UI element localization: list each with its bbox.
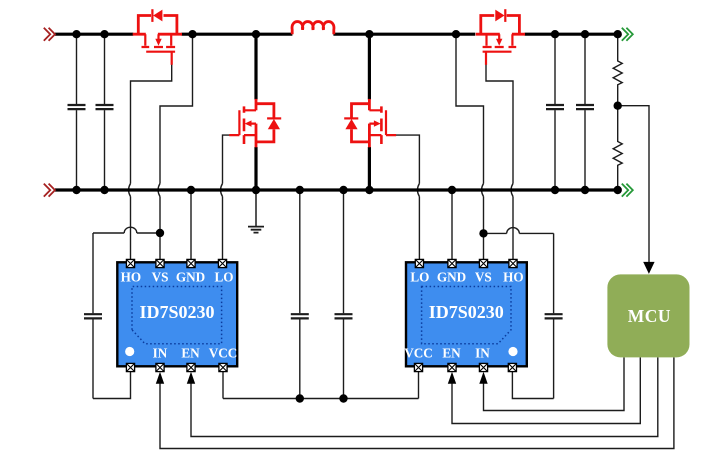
resistor R2 feedback lower bbox=[613, 106, 622, 190]
pin VCC U2 bbox=[414, 363, 422, 371]
wire bootstrap-left to VS node bbox=[137, 232, 160, 234]
wire bootstrap-right bottom route to VB pin bbox=[512, 372, 553, 399]
wire bootstrap-left bottom route to VB pin bbox=[93, 372, 131, 399]
svg-text:GND: GND bbox=[176, 270, 205, 285]
arrow into EN U1 bbox=[187, 372, 195, 384]
capacitor C1 input bbox=[68, 34, 86, 190]
wire LO-right to pin bbox=[418, 197, 420, 260]
arrow into IN U2 bbox=[479, 372, 487, 384]
wire bootstrap-right horizontal bbox=[484, 232, 507, 234]
wire VS-left to pin bbox=[159, 197, 161, 260]
port VIN+ chevron bbox=[44, 28, 55, 41]
pin EN U1 bbox=[187, 363, 195, 371]
op-amp U1 gate driver body bbox=[117, 262, 237, 366]
pin LO U2 bbox=[415, 259, 423, 267]
pin VS U1 bbox=[156, 259, 164, 267]
svg-text:ID7S0230: ID7S0230 bbox=[139, 302, 214, 322]
port VIN- chevron bbox=[44, 184, 55, 197]
capacitor C5 VCC decoupling bbox=[335, 190, 353, 399]
svg-text:LO: LO bbox=[214, 270, 233, 285]
svg-text:VS: VS bbox=[152, 270, 169, 285]
capacitor C7 output bbox=[576, 34, 594, 190]
pin HO U1 bbox=[126, 259, 134, 267]
wire LO-right rail hop bbox=[417, 184, 419, 197]
pin GND U2 bbox=[448, 259, 456, 267]
pin VB U1 bbox=[126, 363, 134, 371]
svg-text:VS: VS bbox=[475, 270, 492, 285]
junction dot VS-left bootstrap bbox=[156, 229, 164, 237]
junction dots bottom rail bbox=[72, 186, 622, 194]
transistor Q1 (top-left MOSFET with body diode) bbox=[133, 9, 182, 65]
svg-text:GND: GND bbox=[437, 270, 466, 285]
svg-text:VCC: VCC bbox=[209, 346, 238, 361]
svg-text:VCC: VCC bbox=[404, 346, 433, 361]
wire MCU out4 to IN-left bbox=[160, 357, 674, 448]
pin EN U2 bbox=[448, 363, 456, 371]
wire LO-left rail hop bbox=[221, 184, 223, 197]
junction dot feedback tap bbox=[614, 102, 622, 110]
svg-text:ID7S0230: ID7S0230 bbox=[429, 302, 504, 322]
wire Q3 source (thick) bbox=[368, 147, 371, 190]
pin GND U1 bbox=[187, 259, 195, 267]
port VOUT+ chevron bbox=[622, 28, 633, 41]
MCU block bbox=[607, 274, 689, 357]
wire bootstrap-left hop over HO wire bbox=[124, 227, 137, 233]
wire LO-right gate route bbox=[396, 135, 420, 183]
wire bootstrap-right hop over HO wire bbox=[507, 228, 520, 234]
wire HO-left gate route bbox=[131, 65, 172, 184]
capacitor C8 bootstrap-right bbox=[545, 233, 563, 398]
capacitor C3 bootstrap-left bbox=[84, 233, 102, 399]
wire Q2 drain (thick) bbox=[254, 34, 257, 99]
wire VCC-right pin drop bbox=[418, 372, 420, 399]
junction dot VCC bus C4 bbox=[296, 394, 304, 402]
wire VS-left rail hop bbox=[158, 184, 160, 197]
U2 inner dashed outline bbox=[422, 287, 511, 344]
wire VS-left from switch node bbox=[160, 34, 193, 183]
svg-text:IN: IN bbox=[475, 346, 490, 361]
wire HO-right gate route bbox=[486, 65, 513, 184]
wire feedback divider tap to MCU bbox=[618, 106, 649, 263]
svg-text:EN: EN bbox=[442, 346, 461, 361]
wire MCU out2 to EN-right bbox=[452, 357, 640, 423]
wire HO-left to pin bbox=[130, 197, 132, 260]
top rail Q1 to inductor bbox=[182, 33, 293, 36]
arrow into EN U2 bbox=[448, 372, 456, 384]
pin VCC U1 bbox=[219, 363, 227, 371]
pin IN U1 bbox=[156, 363, 164, 371]
junction dot VCC bus C5 bbox=[339, 394, 347, 402]
wire GND-left pin to ground rail bbox=[190, 190, 192, 260]
wire HO-left rail hop bbox=[129, 184, 131, 197]
ground bbox=[248, 190, 264, 233]
wire HO-right to pin bbox=[512, 197, 514, 260]
capacitor C6 output bbox=[546, 34, 564, 190]
port VOUT- chevron bbox=[622, 184, 633, 197]
wire LO-left gate route bbox=[223, 135, 230, 183]
U1 pin-1 marker bbox=[125, 347, 134, 356]
wire VS-right to pin bbox=[483, 197, 485, 260]
op-amp U2 gate driver body bbox=[406, 262, 527, 366]
arrow into IN U1 bbox=[156, 372, 164, 384]
wire Q2 source (thick) bbox=[254, 147, 257, 190]
wire bootstrap-right to cap bbox=[519, 232, 553, 234]
transistor Q4 (top-right MOSFET, mirrored) bbox=[476, 9, 525, 65]
transistor Q2 (left low-side MOSFET with body diode) bbox=[229, 99, 281, 147]
wire VCC bus bbox=[223, 398, 419, 400]
pin LO U1 bbox=[218, 259, 226, 267]
pin VB U2 bbox=[508, 363, 516, 371]
U2 pin-1 marker bbox=[508, 347, 517, 356]
transistor Q3 (right low-side MOSFET, mirrored) bbox=[344, 99, 396, 147]
pin VS U2 bbox=[479, 259, 487, 267]
svg-text:EN: EN bbox=[181, 346, 200, 361]
junction dots top rail bbox=[72, 30, 622, 38]
wire GND-right pin to ground rail bbox=[451, 190, 453, 260]
wire bootstrap-left horizontal bbox=[93, 232, 124, 234]
wire VCC-left pin to VCC bus bbox=[222, 372, 224, 399]
wire MCU out3 to EN-left bbox=[191, 357, 658, 436]
junction dot VS-right bootstrap bbox=[479, 229, 487, 237]
wire MCU out1 to IN-right bbox=[484, 357, 625, 410]
svg-text:LO: LO bbox=[410, 270, 429, 285]
wire HO-right rail hop bbox=[511, 184, 513, 197]
U1 inner dashed outline bbox=[132, 287, 222, 344]
pin IN U2 bbox=[479, 363, 487, 371]
svg-text:IN: IN bbox=[153, 346, 168, 361]
svg-text:MCU: MCU bbox=[628, 306, 671, 326]
top rail inductor to Q4 bbox=[333, 33, 475, 36]
top rail Q4 to VOUT bbox=[525, 33, 622, 36]
wire VS-right rail hop bbox=[482, 184, 484, 197]
wire Q3 drain (thick) bbox=[368, 34, 371, 99]
svg-text:HO: HO bbox=[121, 270, 142, 285]
resistor R1 feedback upper bbox=[613, 34, 622, 106]
top rail VIN to Q1 bbox=[55, 33, 133, 36]
capacitor C2 input bbox=[96, 34, 114, 190]
bottom rail bbox=[55, 188, 622, 191]
wire LO-left to pin bbox=[222, 197, 224, 260]
arrow into MCU bbox=[643, 262, 654, 274]
wire VS-right from switch node bbox=[456, 34, 484, 183]
svg-text:HO: HO bbox=[503, 270, 524, 285]
inductor L1 bbox=[292, 22, 334, 35]
capacitor C4 VCC decoupling bbox=[291, 190, 309, 399]
pin HO U2 bbox=[509, 259, 517, 267]
